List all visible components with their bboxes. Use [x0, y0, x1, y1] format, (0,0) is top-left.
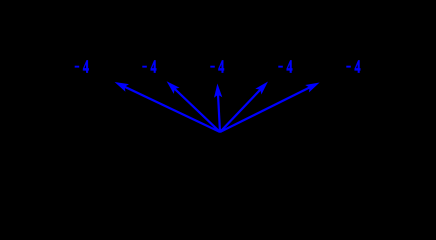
value label -4 (5)	[346, 56, 360, 76]
wire arrow 4	[220, 82, 268, 133]
wire arrow 2	[167, 81, 220, 132]
value label -4 (3)	[210, 56, 224, 76]
wire arrow 5 (to rightmost x)	[220, 83, 320, 133]
svg-text:4: 4	[218, 56, 224, 76]
svg-text:4: 4	[355, 56, 361, 76]
wire arrow 3 (vertical)	[214, 84, 222, 133]
svg-text:4: 4	[83, 56, 89, 76]
wire arrow 1 (to leftmost x)	[115, 82, 220, 132]
svg-text:4: 4	[151, 56, 157, 76]
value label -4 (4)	[278, 56, 292, 76]
value label -4 (2)	[142, 56, 156, 76]
svg-text:4: 4	[287, 56, 293, 76]
value label -4 (1)	[75, 56, 89, 76]
